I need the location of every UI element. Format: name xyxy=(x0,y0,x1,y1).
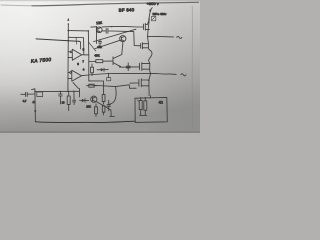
output wire 2 xyxy=(150,72,176,75)
svg-text:Ω: Ω xyxy=(33,100,35,104)
U1a inverting input xyxy=(68,51,70,53)
resistor R5 xyxy=(102,106,105,112)
capacitor C2 xyxy=(102,28,112,33)
paper background xyxy=(0,0,200,133)
tick on W1 xyxy=(75,38,77,45)
component box B1 xyxy=(151,16,155,20)
capacitor C3 xyxy=(126,63,130,71)
svg-text:45K: 45K xyxy=(97,45,102,49)
resistor R9 xyxy=(144,98,146,116)
resistor R3 xyxy=(87,85,97,87)
wire L1 to M1 gate xyxy=(102,26,138,29)
svg-text:12K: 12K xyxy=(96,21,103,25)
wire tie xyxy=(140,114,147,116)
wire left bus V2 xyxy=(67,31,69,92)
component box X2 xyxy=(107,78,111,81)
wire U1b output long to lower bridge node xyxy=(82,74,151,76)
diode D2 xyxy=(97,68,108,71)
wire rail into box xyxy=(149,96,151,98)
node H-a corner xyxy=(88,30,90,32)
U1a non-inverting input xyxy=(68,57,72,59)
tick in box xyxy=(137,100,139,102)
capacitor C6 xyxy=(73,91,76,104)
node W1-V2 junction xyxy=(68,40,70,42)
capacitor C7 xyxy=(107,100,110,111)
wire W1 top-left horizontal xyxy=(36,39,80,42)
paper top edge line xyxy=(1,4,32,7)
power rail xyxy=(148,10,152,96)
svg-text:4.7: 4.7 xyxy=(23,99,27,103)
wire Q1 stem xyxy=(95,27,97,44)
wire W3 bottom xyxy=(35,121,135,122)
MOSFET M2 xyxy=(141,43,149,49)
input arrow xyxy=(67,24,69,30)
wire H-b middle corner xyxy=(68,37,84,54)
output wire 1 xyxy=(148,35,174,38)
wire cluster top xyxy=(89,81,104,92)
wire gate feed M4 xyxy=(89,83,136,88)
svg-text:BF 840: BF 840 xyxy=(119,7,135,13)
tick xyxy=(32,88,35,91)
resistor R8 xyxy=(140,98,142,115)
U1b non-inverting input xyxy=(68,78,72,80)
diode D1 xyxy=(80,99,89,103)
U1a output wire xyxy=(82,54,89,56)
wire V3 xyxy=(34,89,37,122)
svg-text:45K: 45K xyxy=(94,54,99,58)
wire down from M4 gate xyxy=(108,87,116,105)
wire into node xyxy=(91,26,97,28)
junction V3-W2 xyxy=(34,91,36,93)
wire L2 to M2 gate xyxy=(112,31,141,46)
wire L3 xyxy=(94,29,137,41)
node B output2 xyxy=(150,73,152,75)
transistor Q3 xyxy=(91,96,97,102)
wire corner down to U1a xyxy=(79,42,82,49)
U1b inverting input xyxy=(68,71,70,73)
resistor R7 xyxy=(95,104,97,117)
resistor R2 xyxy=(68,91,70,110)
wire L4 xyxy=(95,40,120,48)
wire base feed xyxy=(89,60,96,62)
op-amp U1b xyxy=(72,70,82,81)
capacitor C5 xyxy=(59,92,63,105)
paper right edge line xyxy=(191,6,193,129)
svg-text:+300 v: +300 v xyxy=(147,1,159,6)
node A output1 xyxy=(147,36,149,38)
wire stub xyxy=(78,88,80,97)
component box X1 xyxy=(37,92,43,97)
resistor R4 xyxy=(102,95,105,102)
MOSFET M3 xyxy=(132,63,150,71)
wire stub below U1b xyxy=(73,83,79,89)
node rail-junction xyxy=(148,18,150,20)
wire Q4 collector up xyxy=(121,45,124,54)
svg-text:4Ω: 4Ω xyxy=(159,101,164,105)
svg-text:NPo 400v: NPo 400v xyxy=(153,12,167,16)
arrow +300V xyxy=(150,8,152,11)
transistor Q2 xyxy=(120,36,126,42)
node V2 top junction xyxy=(68,30,70,32)
svg-text:10K: 10K xyxy=(86,105,91,109)
MOSFET M1 xyxy=(138,20,149,31)
MOSFET M4 xyxy=(134,79,149,87)
AC symbol 1 xyxy=(177,36,182,38)
resistor R6 xyxy=(96,60,103,63)
wire Q3 diagonal xyxy=(96,102,114,117)
wire H-a to right bus V1 xyxy=(68,31,89,81)
enclosure box xyxy=(135,97,167,122)
node M4 drain xyxy=(148,80,150,82)
AC symbol 2 xyxy=(181,74,186,76)
capacitor C4 xyxy=(21,92,35,96)
transistor Q1 xyxy=(96,27,102,33)
op-amp U1a xyxy=(72,49,81,60)
wire diagonal to 45K xyxy=(89,43,96,51)
wire gate M3 xyxy=(122,66,132,68)
resistor R10 xyxy=(91,64,93,76)
capacitor 103 xyxy=(99,40,102,46)
wire W2 xyxy=(35,90,79,92)
transistor Q4 xyxy=(110,55,122,68)
